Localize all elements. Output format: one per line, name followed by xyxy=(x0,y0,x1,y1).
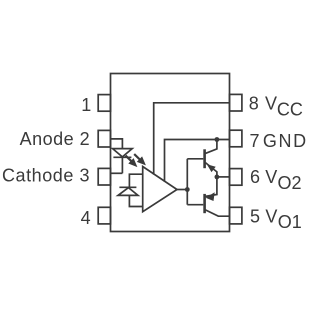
Q2 emitter arrow xyxy=(206,192,215,201)
pin 7 box xyxy=(230,130,242,147)
photodiode D2 triangle xyxy=(118,188,138,196)
wire VCC pin8 feed xyxy=(154,103,230,175)
junction dot emitter node pin6 xyxy=(215,175,220,180)
svg-text:1: 1 xyxy=(81,95,91,115)
svg-text:O1: O1 xyxy=(278,212,302,232)
amplifier U1 triangle xyxy=(143,167,177,212)
svg-text:8: 8 xyxy=(249,93,259,113)
wire Q1 collector xyxy=(205,140,217,154)
wire GND pin7 feed xyxy=(165,140,230,182)
wire photodiode bottom xyxy=(129,195,142,206)
svg-text:Anode 2: Anode 2 xyxy=(20,129,91,149)
svg-text:7: 7 xyxy=(250,131,260,151)
wire pin2 anode lead xyxy=(111,139,123,149)
photodiode D2 cathode bar xyxy=(119,186,136,188)
pin 4 box xyxy=(98,207,110,224)
wire amplifier output xyxy=(177,189,187,191)
wire Q1 emitter xyxy=(205,163,217,177)
IC body outline xyxy=(111,74,230,232)
svg-text:Cathode 3: Cathode 3 xyxy=(2,165,90,185)
svg-text:O2: O2 xyxy=(278,173,302,193)
light arrow 1 tail xyxy=(126,156,132,162)
wire Q2 emitter xyxy=(205,177,217,197)
wire pin6 VO2 lead xyxy=(217,176,230,178)
transistor Q2 base bar xyxy=(203,194,206,213)
wire pin3 cathode lead xyxy=(111,172,123,174)
Q1 emitter arrow xyxy=(207,164,216,172)
svg-text:V: V xyxy=(265,167,277,187)
wire photodiode top xyxy=(129,174,142,187)
pin 2 box xyxy=(98,130,110,147)
pin 6 box xyxy=(230,169,242,186)
pin 8 box xyxy=(230,94,242,111)
wire Q2 base lead xyxy=(187,204,203,206)
pin 3 box xyxy=(98,168,110,185)
light arrow 1 head xyxy=(128,158,137,167)
pin 5 box xyxy=(230,207,242,224)
junction dot pin7/Q1 collector xyxy=(215,137,220,142)
light arrow 2 tail xyxy=(134,154,140,159)
light arrow 2 head xyxy=(137,156,146,165)
svg-text:6: 6 xyxy=(250,167,260,187)
wire base join vertical xyxy=(186,159,188,205)
LED D1 triangle xyxy=(113,149,133,157)
svg-text:5: 5 xyxy=(250,206,260,226)
pin 1 box xyxy=(98,95,110,112)
svg-text:GND: GND xyxy=(263,131,308,151)
wire Q1 base lead xyxy=(187,158,203,160)
svg-text:4: 4 xyxy=(81,208,91,228)
wire LED cathode to pin3 xyxy=(121,157,123,173)
LED D1 cathode bar xyxy=(113,156,131,158)
wire Q2 collector xyxy=(205,210,229,216)
transistor Q1 base bar xyxy=(203,149,206,168)
svg-text:V: V xyxy=(265,206,277,226)
svg-text:V: V xyxy=(265,93,277,113)
junction dot amp output xyxy=(185,187,190,192)
svg-text:CC: CC xyxy=(277,99,303,119)
